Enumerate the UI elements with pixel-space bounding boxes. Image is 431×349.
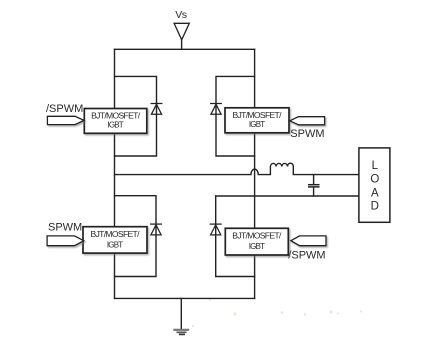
svg-text:/SPWM: /SPWM	[288, 250, 325, 262]
svg-text:SPWM: SPWM	[48, 221, 82, 233]
svg-text:IGBT: IGBT	[107, 240, 123, 249]
svg-text:IGBT: IGBT	[249, 120, 265, 129]
svg-text:BJT/MOSFET/: BJT/MOSFET/	[232, 231, 282, 241]
svg-text:/SPWM: /SPWM	[46, 103, 83, 115]
svg-text:A: A	[371, 188, 379, 200]
svg-text:L: L	[372, 160, 379, 172]
svg-text:IGBT: IGBT	[108, 120, 124, 129]
svg-text:SPWM: SPWM	[290, 128, 324, 140]
svg-text:D: D	[371, 201, 379, 213]
svg-text:O: O	[370, 173, 379, 185]
svg-text:IGBT: IGBT	[249, 242, 265, 251]
svg-text:BJT/MOSFET/: BJT/MOSFET/	[91, 110, 141, 120]
svg-text:BJT/MOSFET/: BJT/MOSFET/	[233, 110, 283, 120]
svg-text:Vs: Vs	[175, 9, 186, 21]
svg-text:BJT/MOSFET/: BJT/MOSFET/	[91, 229, 141, 239]
